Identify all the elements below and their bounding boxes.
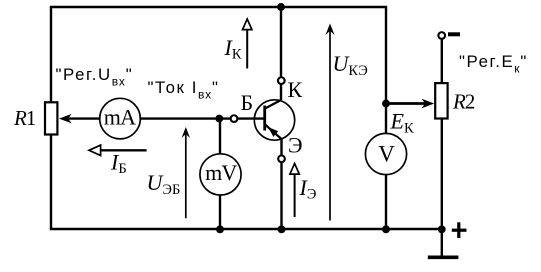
junction dot R2 wiper tap bbox=[382, 100, 390, 108]
resistor R2 body bbox=[435, 83, 447, 118]
svg-text:V: V bbox=[378, 141, 395, 166]
wire ground stub bbox=[441, 229, 443, 257]
junction dot ground node bbox=[438, 225, 446, 233]
transistor base bar bbox=[263, 106, 266, 131]
wire horizontal junction to R2 wiper bbox=[386, 102, 428, 104]
svg-text:Б: Б bbox=[241, 90, 254, 115]
wire top from left corner to right corner bbox=[51, 7, 386, 134]
voltmeter V bbox=[365, 133, 406, 174]
wiper arrow into R1 bbox=[59, 114, 100, 123]
svg-text:R1: R1 bbox=[13, 106, 36, 130]
svg-text:К: К bbox=[288, 77, 303, 102]
wiper arrow into R2 bbox=[386, 99, 434, 108]
wire mV bottom branch bbox=[219, 194, 221, 229]
plus sign bbox=[452, 222, 467, 238]
terminal circle emitter bbox=[278, 155, 285, 162]
junction dot base/mV node bbox=[215, 115, 223, 123]
millivoltmeter mV bbox=[200, 154, 241, 195]
svg-text:R2: R2 bbox=[452, 90, 475, 114]
wire R2 bottom to ground node bbox=[441, 118, 443, 229]
minus sign bbox=[448, 32, 460, 36]
transistor Q1 circle bbox=[254, 100, 294, 140]
junction dot emitter/bottom wire bbox=[278, 225, 286, 233]
wire base lead from mA to transistor bbox=[140, 117, 264, 119]
terminal circle collector bbox=[278, 77, 285, 84]
svg-text:Э: Э bbox=[288, 133, 303, 158]
transistor emitter arrowhead (PNP, pointing to base) bbox=[268, 127, 278, 137]
arrow UEB (thin, up) bbox=[182, 127, 190, 218]
terminal circle minus (top of R2 branch) bbox=[438, 32, 445, 39]
terminal circle base bbox=[231, 115, 238, 122]
transistor collector lead bbox=[265, 100, 281, 109]
junction dot mV/bottom wire bbox=[216, 225, 224, 233]
resistor R1 body bbox=[45, 102, 57, 134]
wire V meter bottom branch bbox=[385, 174, 387, 229]
wire collector vertical to top junction bbox=[280, 7, 282, 100]
junction dot collector/top wire bbox=[277, 3, 285, 11]
wire minus terminal to R2 bbox=[441, 40, 443, 84]
junction dot V/bottom wire bbox=[382, 225, 390, 233]
transistor emitter lead bbox=[265, 125, 282, 140]
arrow IB (hollow, left) bbox=[89, 145, 147, 155]
wire mV top branch bbox=[219, 119, 221, 155]
arrow IK (hollow, up) bbox=[243, 19, 252, 69]
wire left side down through R1 bbox=[50, 7, 52, 229]
wire bottom bbox=[50, 228, 442, 230]
ammeter mA bbox=[100, 98, 141, 139]
ground bbox=[428, 255, 459, 259]
svg-text:mA: mA bbox=[104, 105, 136, 130]
arrow UKE (thin, up) bbox=[326, 24, 335, 221]
svg-text:mV: mV bbox=[205, 160, 237, 185]
wire emitter vertical down to bottom wire bbox=[280, 138, 282, 229]
arrow IE (hollow, up) bbox=[290, 164, 299, 218]
